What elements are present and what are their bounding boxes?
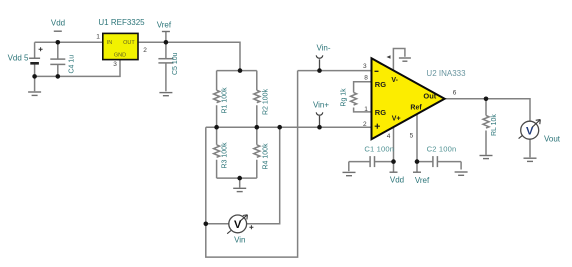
ground voltmeter (524, 158, 537, 161)
node Vref tap (164, 40, 169, 45)
svg-text:3: 3 (363, 63, 367, 70)
resistor R2 100k (254, 88, 270, 115)
svg-text:Vin-: Vin- (316, 44, 330, 53)
svg-text:GND: GND (114, 52, 126, 58)
wire RL top lead (485, 99, 487, 116)
node RL tap (484, 97, 489, 102)
svg-text:R4 100k: R4 100k (263, 143, 270, 170)
node C1 V+ junction (391, 159, 396, 164)
wire C5 top lead (165, 42, 167, 58)
wire RL bottom lead to ground (485, 131, 487, 155)
wire Vin- rail to INA - input (298, 70, 372, 72)
resistor RL 10k (483, 114, 498, 136)
net label Vref under INA (413, 172, 430, 185)
svg-text:V-: V- (391, 77, 398, 84)
capacitor C2 (427, 145, 457, 168)
wire R3 leads (216, 127, 218, 178)
U2 pin 7 (387, 55, 391, 58)
IC U1 REF3325 (103, 33, 138, 59)
wire Vin source right lead up to mid rail (247, 127, 280, 224)
svg-text:OUT: OUT (123, 40, 135, 46)
wire Rg top lead pin8 (354, 82, 372, 93)
svg-text:Vdd 5: Vdd 5 (8, 53, 29, 62)
node C2 Ref junction (415, 159, 420, 164)
wire R4 leads (256, 127, 258, 178)
wire C4 top lead (57, 42, 59, 58)
ground bridge (233, 188, 246, 191)
wire R2 leads (256, 71, 258, 128)
ground INA V- (399, 58, 411, 61)
svg-text:2: 2 (363, 121, 367, 128)
svg-text:2: 2 (143, 47, 147, 54)
svg-text:Out: Out (423, 91, 436, 100)
svg-text:1: 1 (96, 34, 100, 41)
wire Vin source left lead (206, 223, 229, 225)
wire Vin- marker stem (319, 59, 321, 70)
wire bridge ground stub (239, 178, 241, 188)
wire C2 leads (417, 161, 461, 163)
svg-text:Vref: Vref (157, 20, 172, 29)
node Vin source left tap (204, 222, 209, 227)
voltage source Vin (227, 215, 253, 245)
svg-text:Vin: Vin (234, 236, 245, 245)
net label Vref top (157, 20, 172, 31)
svg-text:4: 4 (387, 133, 391, 140)
node battery bottom (32, 74, 37, 79)
resistor R3 100k (214, 142, 229, 169)
node C4 bottom (56, 74, 61, 79)
svg-text:C5 10u: C5 10u (172, 52, 179, 75)
svg-text:Vref: Vref (415, 176, 430, 185)
svg-text:R1 100k: R1 100k (221, 87, 228, 114)
wire top rail battery to U1 pin1 (35, 41, 103, 43)
ground C5 (159, 93, 172, 96)
resistor R1 100k (214, 87, 229, 114)
svg-text:Vdd: Vdd (51, 19, 65, 28)
capacitor C4 (50, 55, 75, 74)
wire battery top lead (34, 42, 36, 57)
svg-text:RG: RG (375, 108, 386, 117)
wire C5 bottom lead to ground (165, 63, 167, 91)
battery V1 Vdd 5 (8, 47, 43, 63)
node bridge top (238, 68, 243, 73)
svg-text:8: 8 (364, 74, 368, 81)
node Vin source right tap (277, 125, 282, 130)
svg-text:U2 INA333: U2 INA333 (426, 69, 466, 78)
wire bridge bottom rail (217, 177, 257, 179)
wire Ref pin down to Vref label (416, 114, 418, 172)
node R1 R3 junction (214, 125, 219, 130)
ground RL (480, 156, 493, 159)
svg-text:R2 100k: R2 100k (263, 88, 270, 115)
svg-text:Vdd: Vdd (390, 176, 404, 185)
net label Vdd top-left (51, 19, 65, 32)
wire bottom-left rail to U1 GND pin3 (35, 60, 120, 77)
node bridge bottom (237, 176, 242, 181)
wire U1 OUT rail to bridge top (138, 42, 240, 70)
wire C1 ground stub (348, 162, 350, 172)
wire battery bottom lead (34, 64, 36, 76)
svg-text:Rg 1k: Rg 1k (341, 88, 348, 107)
svg-text:6: 6 (453, 89, 457, 96)
wire V+ pin down to Vdd label (393, 127, 395, 172)
wire voltmeter bottom lead to ground (529, 139, 531, 157)
wire Rg bottom lead pin1 (354, 108, 372, 112)
wire C1 leads (349, 161, 394, 163)
wire V- pin to ground (393, 49, 405, 71)
wire mid rail to INA + input (206, 126, 372, 128)
wire C4 bottom lead (57, 65, 59, 77)
wire bridge top rail (217, 70, 257, 72)
wire R1 leads (216, 71, 218, 128)
node Vin+ tap (317, 125, 322, 130)
net label Vdd under INA (390, 172, 405, 184)
svg-text:C1 100n: C1 100n (364, 145, 394, 154)
resistor R4 100k (254, 143, 270, 170)
wire Vin+ marker stem (319, 116, 321, 127)
svg-text:V+: V+ (392, 116, 401, 123)
op-amp U2 INA333 (372, 58, 445, 139)
node Vdd tap (56, 40, 61, 45)
wire left loop to INA - input (206, 71, 298, 258)
svg-text:IN: IN (107, 40, 113, 46)
svg-text:U1 REF3325: U1 REF3325 (98, 18, 145, 27)
svg-text:C2 100n: C2 100n (427, 145, 457, 154)
node R2 R4 junction (254, 125, 259, 130)
voltmeter Vout (519, 120, 561, 144)
wire Vref label stub (165, 32, 167, 43)
svg-text:C4 1u: C4 1u (69, 55, 76, 74)
svg-text:V: V (234, 219, 242, 231)
capacitor C5 (158, 52, 179, 75)
net label Vin- (316, 44, 331, 59)
svg-text:Vout: Vout (544, 135, 561, 144)
svg-text:1: 1 (364, 106, 368, 113)
svg-text:3: 3 (113, 61, 117, 68)
capacitor C1 (364, 145, 394, 168)
wire Out rail pin6 to voltmeter (445, 99, 531, 122)
ground C2 (455, 172, 468, 175)
wire battery ground stub (34, 76, 36, 91)
svg-text:5: 5 (410, 132, 414, 139)
net label Vin+ (313, 101, 329, 116)
node Vin- tap (317, 68, 322, 73)
ground battery (28, 92, 41, 95)
resistor Rg 1k (341, 88, 357, 107)
svg-text:RG: RG (375, 80, 386, 89)
svg-text:Vin+: Vin+ (313, 101, 329, 110)
ground C1 (343, 172, 356, 175)
svg-text:RL 10k: RL 10k (491, 114, 498, 136)
wire C2 ground stub (460, 162, 462, 170)
svg-text:Ref: Ref (410, 105, 422, 112)
svg-text:R3 100k: R3 100k (221, 142, 228, 169)
svg-text:V: V (526, 125, 534, 137)
